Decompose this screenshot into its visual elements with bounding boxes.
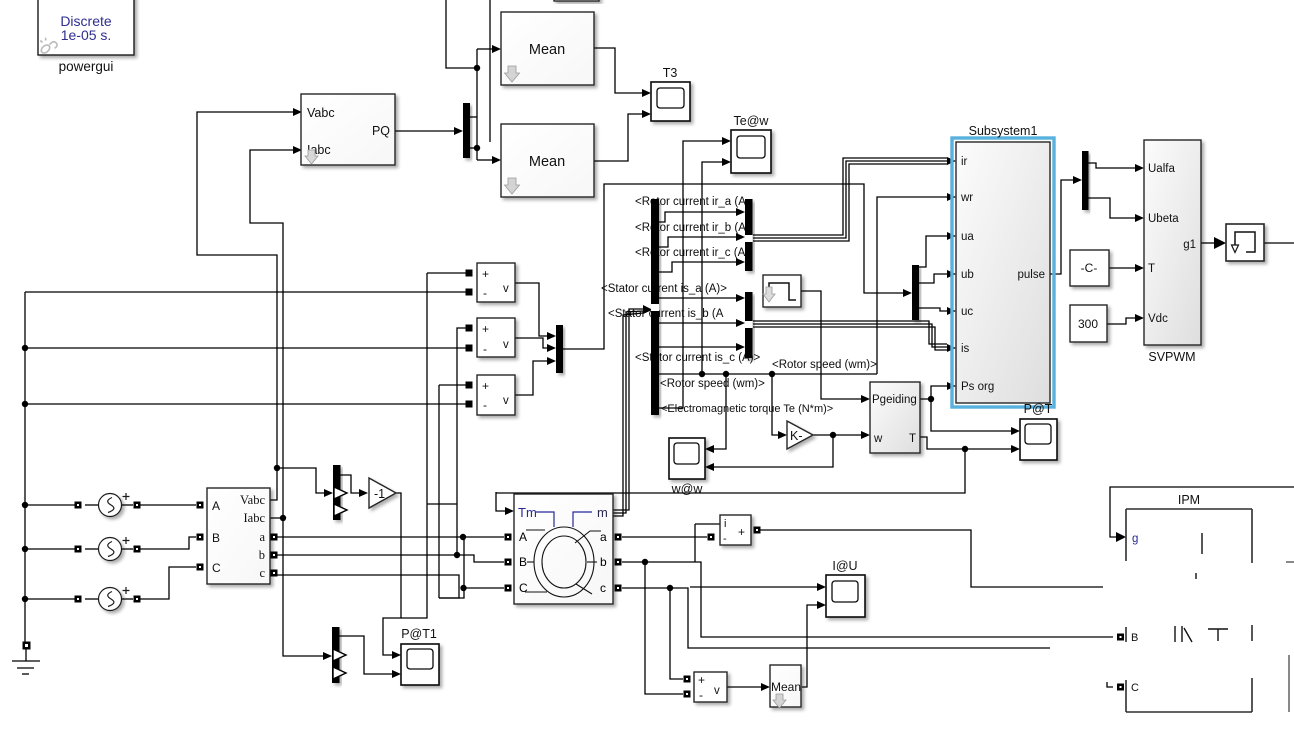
svg-text:Mean: Mean [529, 154, 565, 170]
svg-text:Subsystem1: Subsystem1 [969, 124, 1038, 138]
svg-text:Te@w: Te@w [734, 114, 770, 128]
svg-text:K-: K- [790, 429, 803, 443]
svg-text:-1: -1 [374, 487, 385, 501]
svg-text:g: g [1132, 533, 1138, 545]
svg-text:v: v [503, 339, 509, 351]
svg-text:T3: T3 [663, 66, 678, 80]
svg-text:v: v [714, 685, 720, 697]
svg-text:-: - [483, 286, 487, 300]
svg-text:uc: uc [961, 306, 973, 318]
svg-text:PQ: PQ [372, 124, 390, 138]
svg-text:IPM: IPM [1178, 493, 1200, 507]
svg-text:B: B [519, 555, 527, 569]
svg-text:+: + [698, 673, 705, 687]
svg-text:SVPWM: SVPWM [1148, 350, 1195, 364]
svg-text:pulse: pulse [1018, 269, 1046, 281]
svg-text:i: i [724, 518, 726, 530]
svg-text:Pgeiding: Pgeiding [872, 394, 917, 406]
svg-text:w: w [873, 433, 883, 445]
svg-text:<Electromagnetic torque Te (N*: <Electromagnetic torque Te (N*m)> [661, 403, 833, 415]
svg-text:ua: ua [961, 231, 974, 243]
svg-text:Ps org: Ps org [961, 381, 994, 393]
svg-text:w@w: w@w [671, 482, 704, 496]
svg-text:Ubeta: Ubeta [1148, 213, 1179, 225]
svg-text:C: C [1131, 682, 1139, 694]
svg-text:-: - [699, 688, 703, 702]
svg-text:1e-05 s.: 1e-05 s. [61, 27, 112, 43]
svg-text:Ualfa: Ualfa [1148, 163, 1175, 175]
svg-text:b: b [259, 548, 265, 562]
svg-text:-: - [483, 342, 487, 356]
svg-text:b: b [600, 555, 607, 569]
svg-text:powergui: powergui [59, 59, 114, 74]
svg-text:v: v [503, 283, 509, 295]
svg-text:T: T [909, 433, 916, 445]
svg-text:300: 300 [1078, 317, 1098, 331]
svg-text:Vabc: Vabc [240, 493, 265, 507]
svg-text:+: + [482, 267, 489, 281]
svg-text:is: is [961, 343, 970, 355]
svg-text:ir: ir [961, 156, 968, 168]
svg-text:ub: ub [961, 269, 974, 281]
svg-text:<Stator current is_a (A)>: <Stator current is_a (A)> [601, 283, 727, 295]
svg-text:a: a [259, 530, 265, 544]
svg-text:Tm: Tm [518, 505, 537, 520]
svg-text:P@T: P@T [1024, 402, 1053, 416]
svg-text:Vdc: Vdc [1148, 313, 1168, 325]
svg-text:P@T1: P@T1 [401, 627, 437, 641]
svg-text:B: B [1131, 632, 1138, 644]
svg-text:Iabc: Iabc [243, 511, 265, 525]
svg-text:a: a [600, 530, 607, 544]
svg-text:+: + [482, 322, 489, 336]
svg-text:-: - [483, 398, 487, 412]
svg-text:wr: wr [960, 192, 973, 204]
svg-text:-: - [723, 533, 727, 545]
svg-text:Vabc: Vabc [307, 106, 335, 120]
svg-text:A: A [212, 499, 220, 513]
svg-text:c: c [259, 566, 265, 580]
svg-text:+: + [738, 525, 745, 539]
svg-text:+: + [482, 379, 489, 393]
svg-text:Mean: Mean [529, 42, 565, 58]
svg-text:I@U: I@U [832, 559, 857, 573]
svg-text:<Rotor speed (wm)>: <Rotor speed (wm)> [660, 378, 765, 390]
svg-text:v: v [503, 395, 509, 407]
svg-text:B: B [212, 531, 220, 545]
svg-text:-C-: -C- [1081, 261, 1098, 275]
svg-text:g1: g1 [1183, 239, 1196, 251]
svg-text:m: m [597, 505, 608, 520]
svg-text:C: C [212, 561, 221, 575]
svg-text:A: A [519, 530, 527, 544]
svg-text:T: T [1148, 263, 1155, 275]
svg-text:c: c [600, 581, 606, 595]
svg-text:C: C [519, 581, 528, 595]
svg-text:Mean: Mean [771, 680, 801, 694]
svg-text:<Stator current is_b (A: <Stator current is_b (A [608, 308, 724, 320]
svg-text:<Rotor speed (wm)>: <Rotor speed (wm)> [772, 359, 877, 371]
